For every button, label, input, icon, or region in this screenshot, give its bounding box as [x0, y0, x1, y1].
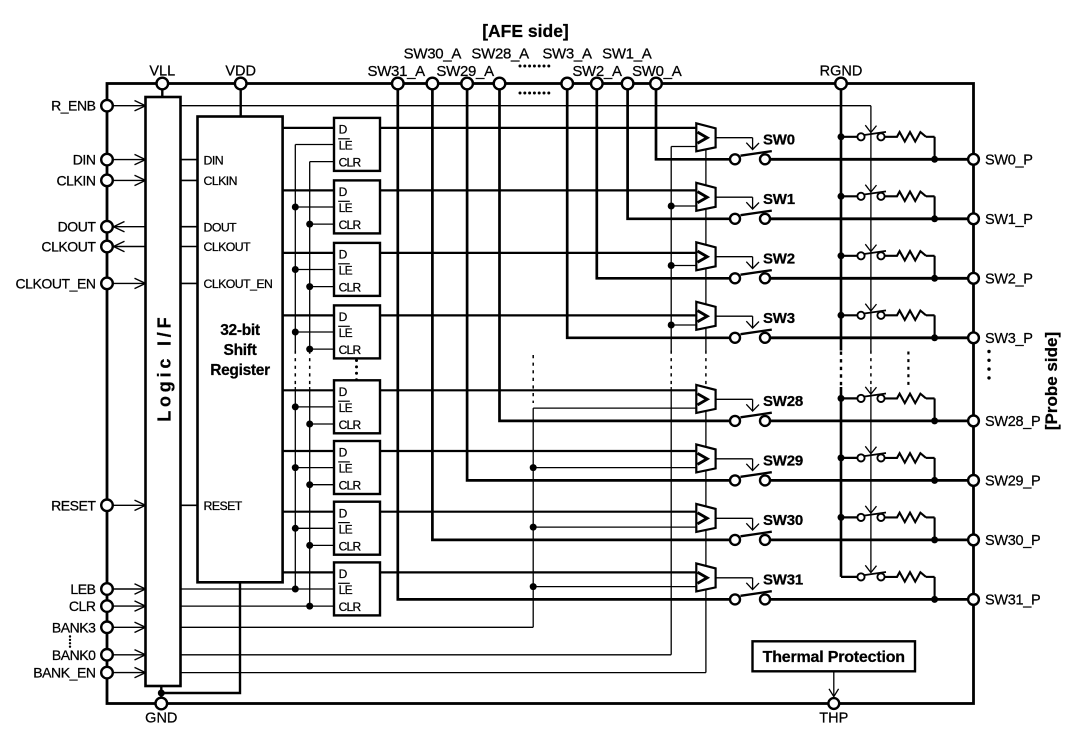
wire SW1_A drop to switch SW1 — [628, 89, 730, 219]
svg-text:R_ENB: R_ENB — [51, 98, 96, 114]
wire shift register Q6 to latch 6 D — [283, 450, 334, 452]
wire CLKIN logic to shift register stub — [181, 179, 198, 181]
junction CLR tap latch 6 — [306, 481, 313, 488]
svg-text:CLKIN: CLKIN — [57, 172, 96, 188]
wire CLR net — [181, 605, 335, 607]
svg-text:DIN: DIN — [73, 152, 96, 168]
wire BANK3 net — [181, 626, 534, 628]
svg-text:RESET: RESET — [204, 499, 243, 513]
switch SW2 blade — [741, 270, 772, 275]
wire LE input latch 5 — [295, 406, 334, 408]
junction BANK0 tap SW1 — [668, 203, 675, 210]
wire driver output arrow SW29 — [716, 458, 753, 460]
wire R_ENB input arrow — [113, 105, 146, 107]
wire driver output arrow SW31 — [716, 577, 753, 579]
svg-text:SW2_A: SW2_A — [572, 63, 622, 80]
clamp switch SW3 wire from RGND — [841, 314, 857, 316]
svg-text:SW28_P: SW28_P — [985, 414, 1040, 430]
wire SW31_A drop to switch SW31 — [398, 89, 730, 599]
svg-text:SW29_P: SW29_P — [985, 473, 1040, 489]
wire LE input latch 7 — [295, 527, 334, 529]
junction BANK3 tap SW30 — [530, 524, 537, 531]
switch SW30 contacts — [730, 535, 740, 545]
wire BANK3 tap to level shifter SW29 — [533, 467, 696, 469]
svg-text:CLR: CLR — [339, 218, 362, 232]
svg-text:CLR: CLR — [69, 598, 96, 614]
resistor R2 clamp — [885, 251, 926, 260]
pin CLR — [101, 600, 113, 612]
svg-text:SW30_P: SW30_P — [985, 533, 1040, 549]
pin SW0_P — [968, 154, 979, 165]
svg-text:LEB: LEB — [70, 581, 95, 597]
svg-text:LE: LE — [339, 326, 353, 340]
wire SW2 output row to SW2_P pin — [770, 277, 974, 280]
wire BANK0 tap to level shifter SW1 — [671, 205, 696, 207]
pin SW28_P — [968, 416, 979, 427]
wire DIN logic to shift register stub — [181, 159, 198, 161]
wire CLR rail dashed continuation — [309, 351, 311, 388]
svg-text:Thermal Protection: Thermal Protection — [763, 649, 905, 666]
svg-text:BANK_EN: BANK_EN — [33, 665, 95, 681]
junction LE tap latch 7 — [292, 525, 299, 532]
pin SW28_A — [494, 78, 506, 90]
svg-text:SW31_P: SW31_P — [985, 592, 1040, 608]
svg-text:LE: LE — [339, 264, 353, 278]
wire driver output arrow SW28 — [716, 398, 753, 400]
wire BANK0 tap to level shifter SW3 — [671, 324, 696, 326]
pin SW1_A — [622, 78, 634, 90]
svg-text:CLKOUT_EN: CLKOUT_EN — [16, 275, 96, 291]
wire CLKOUT logic to shift register stub — [181, 246, 198, 248]
switch SW1 blade — [741, 211, 772, 216]
svg-text:SW28_A: SW28_A — [471, 46, 529, 63]
svg-text:SW3_A: SW3_A — [542, 46, 592, 63]
clamp switch SW3 blade — [864, 310, 886, 313]
wire CLKOUT output arrow — [114, 246, 146, 248]
wire SW0_A drop to switch SW0 — [656, 89, 730, 159]
thermal protection block U11 — [753, 641, 916, 671]
junction CLR rail bottom — [306, 603, 313, 610]
svg-text:SW0: SW0 — [763, 131, 795, 148]
junction LE tap latch 2 — [292, 204, 299, 211]
latch U3 box (SW0) — [334, 118, 380, 171]
wire CLKOUT_EN logic to shift register stub — [181, 282, 198, 284]
junction BANK3 tap SW29 — [530, 464, 537, 471]
svg-text:[AFE side]: [AFE side] — [482, 21, 569, 41]
pin SW3_P — [968, 332, 979, 343]
svg-text:LE: LE — [339, 201, 353, 215]
switch SW1 contacts — [730, 214, 740, 224]
wire BANK0 tap to level shifter SW2 — [671, 265, 696, 267]
svg-text:SW1: SW1 — [763, 191, 795, 208]
svg-text:Logic I/F: Logic I/F — [155, 314, 175, 422]
pin SW30_A — [427, 78, 439, 90]
wire RGND rail — [840, 89, 843, 350]
junction LE tap latch 3 — [292, 266, 299, 273]
wire CLR input latch 7 — [310, 544, 334, 546]
wire shift register Q5 to latch 5 D — [283, 389, 334, 391]
junction LE tap latch 6 — [292, 464, 299, 471]
wire CLR input latch 2 — [310, 223, 334, 225]
wire shift register Q3 to latch 3 D — [283, 252, 334, 254]
level shifter driver SW29 — [696, 444, 715, 472]
wire LEB net — [181, 588, 335, 590]
junction resistor to row SW28 — [931, 417, 938, 424]
clamp switch SW28 contacts — [857, 395, 864, 402]
switch SW0 blade — [741, 151, 772, 156]
svg-text:SW0_P: SW0_P — [985, 152, 1033, 168]
clamp switch SW28 wire from RGND — [841, 397, 857, 399]
pin CLKOUT — [101, 241, 113, 253]
wire BANK3 rail dashed continuation — [532, 355, 534, 403]
wire SW30 output row to SW30_P pin — [770, 539, 974, 542]
wire latch 1 output to level shifter SW0 — [380, 127, 696, 129]
latch U4 box (SW1) — [334, 180, 380, 233]
resistor R31 clamp — [885, 572, 926, 581]
junction RGND tap SW30 — [838, 514, 845, 521]
svg-text:BANK0: BANK0 — [52, 647, 96, 663]
chip boundary — [107, 84, 974, 704]
wire driver output arrow SW0 — [716, 137, 753, 139]
level shifter driver SW2 — [696, 242, 715, 270]
svg-text:CLR: CLR — [339, 281, 362, 295]
clamp switch SW1 wire from RGND — [841, 195, 857, 197]
svg-text:SW3_P: SW3_P — [985, 331, 1033, 347]
junction CLR tap latch 3 — [306, 283, 313, 290]
svg-text:D: D — [339, 446, 348, 460]
wire latch 8 output to level shifter SW31 — [380, 571, 696, 573]
pin DIN — [101, 154, 113, 166]
svg-text:GND: GND — [145, 711, 177, 727]
wire LE input latch 2 — [295, 206, 334, 208]
junction resistor to row SW2 — [931, 275, 938, 282]
svg-text:LE: LE — [339, 139, 353, 153]
wire BANK_EN net — [181, 672, 706, 674]
switch SW31 contacts — [730, 594, 740, 604]
clamp control arrowhead SW31 — [865, 565, 876, 572]
svg-text:CLR: CLR — [339, 343, 362, 357]
svg-text:CLKIN: CLKIN — [204, 174, 237, 188]
svg-text:SW2_P: SW2_P — [985, 271, 1033, 287]
switch SW0 contacts — [730, 154, 740, 164]
junction LEB rail bottom — [292, 586, 299, 593]
wire shift register Q4 to latch 4 D — [283, 314, 334, 316]
svg-text:CLKOUT: CLKOUT — [204, 240, 252, 254]
clamp switch SW31 wire from RGND — [841, 576, 857, 578]
wire SW3 output row to SW3_P pin — [770, 336, 974, 339]
pin THP — [828, 698, 839, 709]
junction RGND tap SW2 — [838, 252, 845, 259]
wire BANK3 tap to level shifter SW31 — [533, 586, 696, 588]
clamp switch SW28 blade — [864, 394, 886, 397]
wire VLL stub — [161, 89, 163, 97]
svg-text:D: D — [339, 385, 348, 399]
pin SW2_A — [591, 78, 603, 90]
svg-text:DOUT: DOUT — [58, 219, 97, 235]
svg-text:RESET: RESET — [51, 497, 96, 513]
clamp switch SW31 blade — [864, 572, 886, 575]
clamp switch SW3 contacts — [857, 312, 864, 319]
clamp switch SW30 wire from RGND — [841, 516, 857, 518]
switch SW31 blade — [741, 591, 772, 596]
clamp switch SW30 contacts — [857, 514, 864, 521]
junction resistor to row SW29 — [931, 477, 938, 484]
wire LE input latch 1 — [295, 144, 334, 146]
svg-text:32-bit: 32-bit — [220, 322, 260, 339]
wire R_ENB rail horizontal — [181, 105, 871, 107]
svg-text:RGND: RGND — [820, 64, 863, 80]
continuation dots resistor column — [907, 352, 909, 388]
junction BANK0 tap SW2 — [668, 262, 675, 269]
pin SW3_A — [561, 78, 573, 90]
wire BANK_EN rail dashed continuation — [705, 351, 707, 388]
clamp switch SW0 blade — [864, 132, 886, 135]
wire R_ENB rail vertical — [870, 106, 872, 351]
svg-text:D: D — [339, 310, 348, 324]
clamp switch SW31 contacts — [857, 573, 864, 580]
svg-text:SW30_A: SW30_A — [404, 46, 462, 63]
svg-text:Shift: Shift — [224, 342, 257, 359]
svg-text:CLR: CLR — [339, 156, 362, 170]
wire driver output arrow SW2 — [716, 256, 753, 258]
continuation dots BANK pins — [69, 635, 71, 637]
switch SW3 blade — [741, 330, 772, 335]
junction RGND tap SW3 — [838, 312, 845, 319]
pin SW31_A — [392, 78, 404, 90]
clamp control arrowhead SW3 — [865, 304, 876, 311]
pin SW2_P — [968, 273, 979, 284]
junction BANK0 tap SW3 — [668, 322, 675, 329]
junction LE tap latch 5 — [292, 403, 299, 410]
switch SW28 blade — [741, 413, 772, 418]
pin CLKOUT_EN — [101, 278, 113, 290]
svg-text:CLR: CLR — [339, 539, 362, 553]
clamp switch SW1 contacts — [857, 193, 864, 200]
pin VLL — [157, 78, 169, 90]
wire BANK3 tap to level shifter SW30 — [533, 526, 696, 528]
latch U5 box (SW2) — [334, 243, 380, 296]
clamp switch SW1 blade — [864, 191, 886, 194]
wire shift register Q1 to latch 1 D — [283, 127, 334, 129]
wire RESET logic to shift register stub — [181, 504, 198, 506]
wire logic to GND — [160, 686, 162, 704]
wire driver output arrow SW1 — [716, 196, 753, 198]
pin GND — [156, 698, 168, 710]
resistor R28 clamp — [885, 394, 926, 403]
junction CLR tap latch 5 — [306, 421, 313, 428]
svg-text:SW0_A: SW0_A — [632, 63, 682, 80]
svg-text:CLKOUT_EN: CLKOUT_EN — [204, 277, 273, 291]
switch SW30 blade — [741, 532, 772, 537]
junction LE tap latch 4 — [292, 329, 299, 336]
wire SW1 output row to SW1_P pin — [770, 217, 974, 220]
resistor R30 clamp — [885, 513, 926, 522]
wire latch 2 output to level shifter SW1 — [380, 189, 696, 191]
wire shift register Q7 to latch 7 D — [283, 511, 334, 513]
junction CLR tap latch 2 — [306, 221, 313, 228]
svg-text:DIN: DIN — [204, 153, 224, 167]
wire LE input latch 3 — [295, 269, 334, 271]
resistor R3 clamp — [885, 311, 926, 320]
continuation dots right side outputs — [987, 350, 990, 353]
wire driver output arrow SW30 — [716, 517, 753, 519]
pin SW29_P — [968, 475, 979, 486]
switch SW3 contacts — [730, 333, 740, 343]
wire BANK0 input arrow — [113, 654, 146, 656]
svg-text:SW31_A: SW31_A — [367, 63, 425, 80]
latch U8 box (SW29) — [334, 441, 380, 494]
logic I/F block U1 — [146, 97, 181, 686]
latch U10 box (SW31) — [334, 562, 380, 615]
pin R_ENB — [101, 100, 113, 112]
junction RGND tap SW28 — [838, 395, 845, 402]
wire driver output arrow SW3 — [716, 315, 753, 317]
wire latch 4 output to level shifter SW3 — [380, 314, 696, 316]
clamp control arrowhead SW28 — [865, 387, 876, 394]
wire SW29 output row to SW29_P pin — [770, 479, 974, 482]
wire shift register Q2 to latch 2 D — [283, 189, 334, 191]
wire latch 6 output to level shifter SW29 — [380, 450, 696, 452]
svg-text:SW28: SW28 — [763, 393, 803, 410]
pin SW1_P — [968, 213, 979, 224]
svg-text:SW2: SW2 — [763, 250, 795, 267]
pin SW29_A — [461, 78, 473, 90]
junction CLR tap latch 4 — [306, 346, 313, 353]
pin RESET — [101, 500, 113, 512]
wire CLR input latch 5 — [310, 423, 334, 425]
svg-text:D: D — [339, 248, 348, 262]
svg-text:SW30: SW30 — [763, 512, 803, 529]
wire SW29_A drop to switch SW29 — [467, 89, 730, 480]
shift register block U2 — [198, 117, 283, 583]
level shifter driver SW1 — [696, 183, 715, 211]
switch SW29 contacts — [730, 475, 740, 485]
svg-text:BANK3: BANK3 — [52, 619, 96, 635]
clamp switch SW2 wire from RGND — [841, 255, 857, 257]
wire SW3_A drop to switch SW3 — [567, 89, 730, 338]
wire BANK0 rail dashed continuation — [670, 351, 672, 388]
wire latch 7 output to level shifter SW30 — [380, 511, 696, 513]
level shifter driver SW28 — [696, 385, 715, 413]
pin LEB — [101, 583, 113, 595]
wire DOUT logic to shift register stub — [181, 226, 198, 228]
level shifter driver SW0 — [696, 123, 715, 151]
wire shift register to GND — [161, 582, 240, 693]
wire SW28 output row to SW28_P pin — [770, 419, 974, 422]
svg-text:SW1_P: SW1_P — [985, 212, 1033, 228]
wire LE rail dashed continuation — [294, 351, 296, 388]
latch U6 box (SW3) — [334, 305, 380, 358]
wire thermal protection to THP pin — [833, 671, 835, 696]
svg-text:VLL: VLL — [149, 64, 175, 80]
wire RESET input arrow — [113, 504, 146, 506]
svg-text:LE: LE — [339, 522, 353, 536]
wire LE input latch 6 — [295, 467, 334, 469]
clamp control arrowhead SW1 — [865, 185, 876, 192]
svg-text:D: D — [339, 185, 348, 199]
svg-text:D: D — [339, 123, 348, 137]
switch SW29 blade — [741, 472, 772, 477]
clamp control arrowhead SW29 — [865, 446, 876, 453]
wire shift register Q8 to latch 8 D — [283, 571, 334, 573]
switch SW2 contacts — [730, 273, 740, 283]
latch U9 box (SW30) — [334, 502, 380, 555]
junction resistor to row SW31 — [931, 596, 938, 603]
wire CLR input arrow — [113, 605, 146, 607]
svg-text:DOUT: DOUT — [204, 220, 238, 234]
clamp switch SW0 wire from RGND — [841, 136, 857, 138]
wire R_ENB rail dashed continuation — [870, 351, 872, 388]
wire SW0 output row to SW0_P pin — [770, 158, 974, 161]
wire LEB input arrow — [113, 588, 146, 590]
svg-text:SW3: SW3 — [763, 310, 795, 327]
svg-text:LE: LE — [339, 401, 353, 415]
resistor R0 clamp — [885, 132, 926, 141]
junction BANK3 tap SW31 — [530, 583, 537, 590]
svg-text:CLR: CLR — [339, 418, 362, 432]
switch SW28 contacts — [730, 416, 740, 426]
clamp control arrowhead SW0 — [865, 125, 876, 132]
pin SW0_A — [650, 78, 662, 90]
wire BANK0 net — [181, 654, 672, 656]
wire DOUT output arrow — [114, 226, 146, 228]
svg-text:CLR: CLR — [339, 479, 362, 493]
wire SW2_A drop to switch SW2 — [597, 89, 730, 278]
wire latch 5 output to level shifter SW28 — [380, 389, 696, 391]
pin SW30_P — [968, 535, 979, 546]
pin CLKIN — [101, 175, 113, 187]
continuation dots between SW_A labels — [519, 65, 522, 68]
svg-text:SW29: SW29 — [763, 452, 803, 469]
wire SW31 output row to SW31_P pin — [770, 598, 974, 601]
pin BANK_EN — [101, 667, 113, 679]
clamp switch SW2 blade — [864, 251, 886, 254]
svg-text:LE: LE — [339, 462, 353, 476]
wire CLR input latch 3 — [310, 286, 334, 288]
level shifter driver SW3 — [696, 302, 715, 330]
junction CLR tap latch 7 — [306, 542, 313, 549]
wire RGND rail dashed continuation — [840, 352, 842, 388]
continuation dots below top border — [519, 92, 522, 95]
clamp switch SW29 blade — [864, 453, 886, 456]
wire LE input latch 4 — [295, 331, 334, 333]
junction RGND tap SW29 — [838, 454, 845, 461]
svg-text:LE: LE — [339, 583, 353, 597]
svg-text:SW1_A: SW1_A — [602, 46, 652, 63]
svg-text:D: D — [339, 567, 348, 581]
level shifter driver SW31 — [696, 563, 715, 591]
svg-text:Register: Register — [210, 362, 270, 379]
wire CLR input latch 1 — [310, 161, 334, 163]
pin BANK0 — [101, 649, 113, 661]
svg-text:CLKOUT: CLKOUT — [41, 239, 96, 255]
junction resistor to row SW0 — [931, 156, 938, 163]
wire DIN input arrow — [113, 159, 146, 161]
pin VDD — [235, 78, 247, 90]
junction RGND tap SW0 — [838, 133, 845, 140]
wire CLKIN input arrow — [113, 179, 146, 181]
clamp switch SW2 contacts — [857, 252, 864, 259]
wire VDD stub — [239, 89, 241, 116]
svg-text:SW29_A: SW29_A — [436, 63, 494, 80]
wire SW30_A drop to switch SW30 — [432, 89, 730, 540]
pin BANK3 — [101, 622, 113, 634]
svg-text:CLR: CLR — [339, 600, 362, 614]
resistor R29 clamp — [885, 453, 926, 462]
level shifter driver SW30 — [696, 504, 715, 532]
svg-text:VDD: VDD — [225, 64, 256, 80]
svg-text:[Probe side]: [Probe side] — [1042, 332, 1061, 430]
